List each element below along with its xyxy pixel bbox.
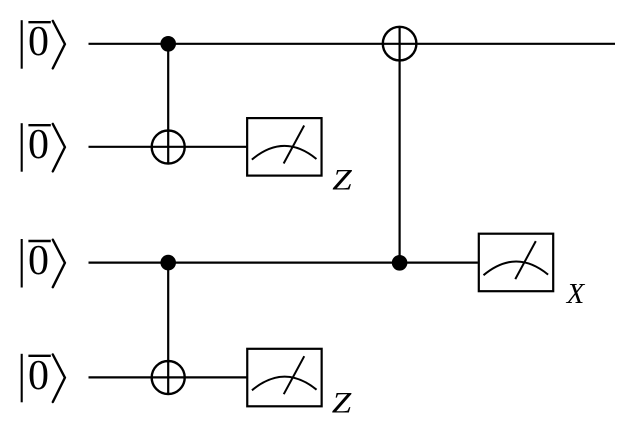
CNOT1 control dot on qubit 1 [160, 36, 176, 52]
meter M3 Z-measurement on qubit 4 [247, 349, 321, 407]
ket |0> qubit 4 [22, 353, 65, 403]
ket |0> qubit 1 [22, 19, 65, 69]
wire qubit 3 [89, 262, 478, 264]
meter M2 X-measurement on qubit 3 [479, 234, 553, 292]
wire qubit 4 [89, 376, 247, 378]
svg-text:Z: Z [332, 387, 352, 419]
vertical wire CNOT2 target to control [399, 27, 401, 263]
CNOT3 control dot on qubit 3 [160, 255, 176, 271]
meter M1 Z-measurement on qubit 2 [247, 118, 321, 176]
wire qubit 1 [89, 43, 616, 45]
CNOT2 target on qubit 1 [383, 27, 417, 61]
CNOT2 control dot on qubit 3 [392, 255, 408, 271]
CNOT3 target on qubit 4 [152, 361, 185, 394]
wire qubit 2 [89, 146, 247, 148]
vertical wire CNOT1 control to target [167, 44, 169, 164]
svg-text:X: X [566, 279, 586, 310]
CNOT1 target on qubit 2 [152, 131, 185, 164]
vertical wire CNOT3 control to target [167, 263, 169, 394]
ket |0> qubit 3 [22, 238, 65, 288]
ket |0> qubit 2 [22, 122, 65, 171]
svg-text:Z: Z [332, 165, 352, 197]
